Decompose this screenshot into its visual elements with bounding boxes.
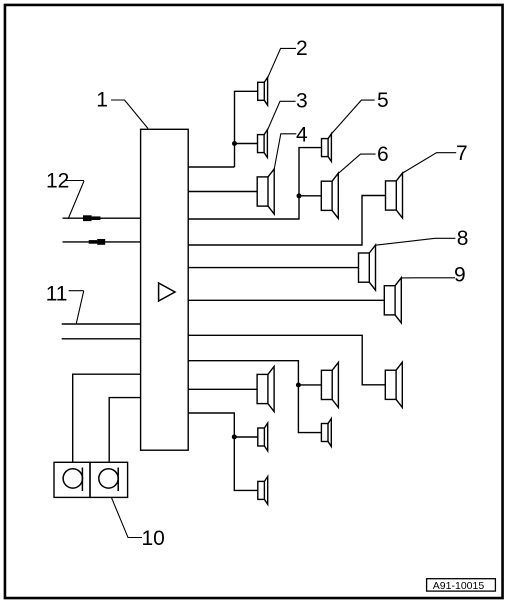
svg-text:12: 12 [46,170,69,193]
svg-text:9: 9 [454,264,466,287]
svg-text:3: 3 [296,89,308,112]
svg-text:A91-10015: A91-10015 [433,580,485,592]
svg-text:6: 6 [377,143,389,166]
svg-text:5: 5 [377,89,389,112]
svg-text:8: 8 [457,227,469,250]
svg-text:4: 4 [296,123,308,146]
svg-text:1: 1 [96,88,108,111]
svg-text:11: 11 [46,283,68,306]
svg-text:10: 10 [142,527,165,550]
svg-text:2: 2 [296,37,308,60]
svg-text:7: 7 [456,142,468,165]
